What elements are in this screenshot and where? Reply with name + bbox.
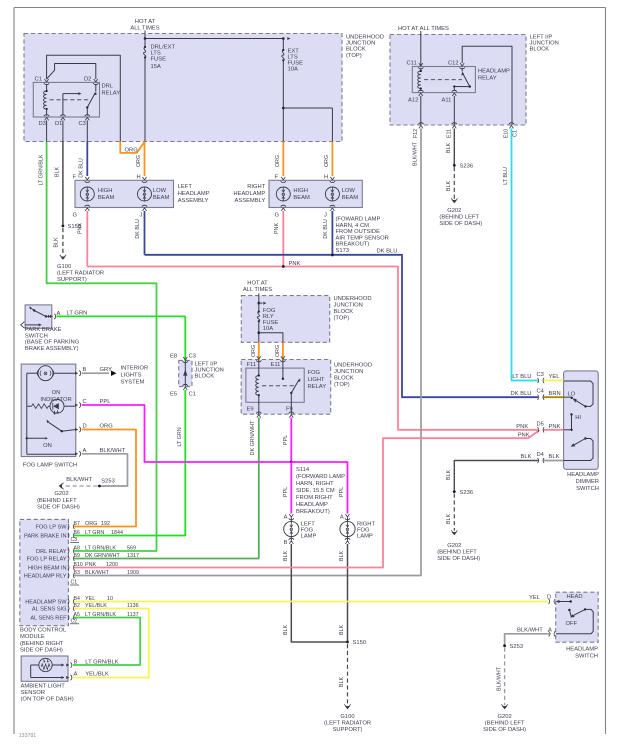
pin C1 [35,77,50,85]
node PNK junction [282,261,301,268]
svg-text:A: A [83,448,87,454]
fuse DRL/EXT label [151,45,176,71]
svg-text:S150: S150 [353,640,367,646]
svg-text:JUNCTION: JUNCTION [334,369,363,375]
wire LT GRN/BLK BCM A5 to sensor [73,618,140,666]
splice S173 [331,248,397,256]
dimmer LO path [564,381,593,408]
svg-text:F: F [73,174,77,180]
svg-text:YEL: YEL [529,595,541,601]
connector label C1 [70,580,79,586]
pin C11 [407,61,424,69]
dimmer HI contact [564,413,582,431]
switch headlamp box [556,592,599,642]
node power bus [144,37,291,40]
svg-text:HEADLAMP: HEADLAMP [178,191,210,197]
left I/P junction block box [390,35,526,126]
svg-text:(LEFT RADIATOR: (LEFT RADIATOR [57,271,104,277]
underhood junction block fog fuse box [241,296,329,343]
pin E10 / C1 [503,123,518,139]
svg-text:BLOCK: BLOCK [346,46,366,52]
svg-text:D4: D4 [537,452,545,458]
svg-text:BLK: BLK [339,551,345,562]
pin E11 fog [271,356,286,368]
right headlamp assembly box [269,180,362,207]
wire feed fog fuse [258,294,260,304]
svg-text:AIR TEMP SENSOR: AIR TEMP SENSOR [336,235,389,241]
pin B2 AL SENS SIG [32,603,139,612]
svg-text:YEL: YEL [549,374,561,380]
splice S150 (left) [62,224,82,230]
svg-text:SWITCH: SWITCH [25,333,48,339]
ground G202 (upper) [439,198,482,227]
svg-text:BLK/WHT: BLK/WHT [85,570,110,576]
relay fog arm [290,378,300,394]
svg-text:PARK BRAKE: PARK BRAKE [25,327,62,333]
svg-text:FROM RIGHT: FROM RIGHT [296,495,333,501]
svg-text:E11: E11 [271,362,281,368]
right headlamp assembly label [233,184,265,204]
pin B9 FOG LP RELAY [27,553,139,562]
svg-text:SIDE OF DASH): SIDE OF DASH) [20,647,63,653]
svg-text:INDICATOR: INDICATOR [40,397,71,403]
svg-text:(TOP): (TOP) [346,53,362,59]
svg-text:C1: C1 [71,580,78,586]
svg-text:BLK/WHT: BLK/WHT [496,666,502,691]
svg-text:BLK: BLK [339,625,345,636]
svg-text:HARN, 4 CM: HARN, 4 CM [336,223,370,229]
svg-text:GRY: GRY [100,367,113,373]
svg-text:DK BLU: DK BLU [377,248,398,254]
wire LT GRN/BLK sensor label [85,659,118,665]
fuse FOG RLY FUSE 10A [257,303,260,342]
svg-text:C4: C4 [537,389,545,395]
pin E9 [247,407,262,418]
svg-text:C3: C3 [71,537,78,543]
svg-text:BEAM: BEAM [293,195,310,201]
svg-text:HARN, RIGHT: HARN, RIGHT [296,481,334,487]
lamp right fog [340,514,376,544]
svg-text:B: B [284,540,288,546]
svg-text:BRAKE ASSEMBLY): BRAKE ASSEMBLY) [25,346,79,352]
svg-text:SUPPORT): SUPPORT) [333,727,363,733]
relay fog coil [256,374,260,396]
pin C12 [448,61,465,69]
svg-text:DK GRN/WHT: DK GRN/WHT [85,553,120,559]
wire dashed to G202 right [496,648,504,706]
svg-text:BLK: BLK [55,167,61,178]
pin A headlamp switch [517,595,555,636]
svg-text:PNK: PNK [274,223,280,234]
switch fog lamp ON branch [26,437,52,449]
ground G202 (lower) [437,530,480,562]
svg-text:UNDERHOOD: UNDERHOOD [334,296,372,302]
svg-text:F9: F9 [286,407,293,413]
ground G100 (fog) [324,704,371,733]
pin A12 [408,90,423,103]
svg-text:RIGHT: RIGHT [247,184,265,190]
dimmer brn entry [511,389,572,400]
lamp left fog [284,514,317,546]
svg-text:DK BLU: DK BLU [79,158,85,178]
wire PNK left high beam [78,211,88,267]
svg-text:S173: S173 [336,248,350,254]
wire BLK E11 [446,129,454,166]
svg-text:(TOP): (TOP) [334,316,350,322]
splice S253 (left) [66,477,115,488]
connector label C3 [70,537,79,543]
wire LT BLU E10 to dimmer [503,129,538,381]
pin A11 [442,90,457,103]
fuse EXT label [288,49,304,73]
svg-text:DK BLU: DK BLU [323,219,329,239]
svg-text:C3: C3 [79,121,86,127]
wire ORG to left low beam [136,142,145,177]
switch fog lamp resistor+LED [27,399,76,414]
svg-text:PNK: PNK [518,433,530,439]
svg-text:LEFT: LEFT [178,184,193,190]
svg-text:(LEFT RADIATOR: (LEFT RADIATOR [324,721,371,727]
svg-text:AL SENS REF: AL SENS REF [30,615,67,621]
left I/P junction block (small) label [195,362,224,380]
pin C fog switch [75,399,87,408]
wire LT GRN to BCM B6 [74,390,185,536]
ground G202 (left) [37,483,80,511]
svg-text:PPL: PPL [283,435,289,445]
svg-text:HIGH BEAM IN: HIGH BEAM IN [28,565,67,571]
relay DRL coil [43,84,47,116]
svg-text:BLK/WHT: BLK/WHT [517,628,543,634]
svg-text:YEL/BLK: YEL/BLK [85,672,109,678]
svg-text:LT BLU: LT BLU [503,167,509,185]
svg-text:ORG: ORG [324,155,330,167]
svg-text:S236: S236 [460,164,474,170]
svg-text:SWITCH: SWITCH [575,653,598,659]
svg-text:MODULE: MODULE [20,634,45,640]
svg-text:S114: S114 [296,467,310,473]
pin E8 C3 [170,354,196,363]
svg-text:HOT AT ALL TIMES: HOT AT ALL TIMES [398,26,449,32]
wire ORG to right high beam [275,142,284,177]
lamp right high beam [275,174,310,218]
svg-text:LAMP: LAMP [301,533,317,539]
relay fog E11 contact [282,360,284,380]
wire YEL/BLK sensor label [85,672,109,678]
svg-text:C1: C1 [513,130,519,137]
svg-text:S236: S236 [460,490,474,496]
svg-text:DIMMER: DIMMER [575,479,599,485]
wire feed into DRL fuse [144,31,146,39]
ground G202 (right) [483,704,526,733]
svg-text:FOG LAMP SWITCH: FOG LAMP SWITCH [23,463,77,469]
pin A sensor [66,672,77,681]
svg-text:(BEHIND LEFT: (BEHIND LEFT [485,721,525,727]
svg-text:LOW: LOW [342,188,356,194]
dimmer yel entry [512,372,563,383]
svg-text:HEADLAMP RLY: HEADLAMP RLY [24,573,67,579]
splice S150 (fog) [346,640,366,646]
ground G100 left radiator support [57,255,104,283]
wire PPL to right fog lamp [291,462,347,514]
svg-text:BRN: BRN [549,391,561,397]
svg-text:HEADLAMP: HEADLAMP [233,191,265,197]
switch fog lamp left rail [27,373,76,454]
interior lights system label [121,366,149,386]
svg-text:J: J [324,213,327,219]
svg-text:SIDE OF DASH): SIDE OF DASH) [483,727,526,733]
pin D1 [55,115,66,127]
wire BLK dashed to G100 [54,228,63,255]
svg-text:BLK/WHT: BLK/WHT [66,477,92,483]
svg-text:BLK: BLK [446,143,452,154]
pin B6 PARK BRAKE IN [24,530,123,539]
lamp right low beam [324,174,358,218]
wire LT GRN park brake [57,310,186,316]
svg-text:ORG: ORG [136,155,142,167]
svg-text:BLK/WHT: BLK/WHT [413,141,419,166]
svg-text:E10: E10 [503,129,509,139]
svg-text:1909: 1909 [127,570,139,576]
svg-text:E9: E9 [247,407,254,413]
dimmer LO arm [571,397,586,407]
svg-text:(ON TOP OF DASH): (ON TOP OF DASH) [21,697,74,703]
svg-text:G: G [73,213,78,219]
junction block pass-through [183,360,187,386]
svg-text:BLK: BLK [446,514,452,525]
switch fog lamp on indicator text [40,390,71,403]
svg-text:A8: A8 [74,546,80,552]
wire A11 down [453,96,455,125]
wire C1 loop to bus [47,55,121,141]
svg-text:LT GRN: LT GRN [67,310,88,316]
svg-text:C2: C2 [71,618,78,624]
relay DRL box [33,82,99,117]
svg-text:RELAY: RELAY [478,76,497,82]
pin B3 HEADLAMP RLY [24,570,139,579]
svg-text:ORG: ORG [100,424,114,430]
note S114 breakout [296,467,345,515]
svg-text:BLOCK: BLOCK [334,309,354,315]
svg-text:LT GRN: LT GRN [85,530,104,536]
svg-text:D5: D5 [537,421,544,427]
svg-text:BLK: BLK [283,551,289,562]
svg-text:B7: B7 [74,521,80,527]
svg-text:AMBIENT LIGHT: AMBIENT LIGHT [21,683,66,689]
relay headlamp arm [453,68,471,91]
relay DRL pin arrow line D1 [63,92,82,115]
switch headlamp arm [566,608,587,627]
wire YEL BCM B4 to headlamp switch [74,601,549,603]
left headlamp assembly box [75,180,174,207]
svg-text:B9: B9 [74,553,80,559]
switch fog lamp box [21,364,76,456]
svg-text:BEAM: BEAM [98,195,115,201]
svg-text:BEAM: BEAM [153,195,170,201]
svg-text:B6: B6 [74,530,80,536]
pin E11 [446,123,457,138]
sensor ambient light symbol [31,658,64,679]
svg-text:BLK: BLK [283,625,289,636]
svg-text:PPL: PPL [283,487,289,497]
svg-text:BLK: BLK [549,454,560,460]
sensor ambient light label [21,683,74,702]
svg-text:HEADLAMP: HEADLAMP [567,472,599,478]
underhood junction block fog relay box [241,360,331,415]
svg-text:BREAKOUT): BREAKOUT) [336,242,370,248]
switch park brake label [25,327,80,352]
switch fog lamp lamp symbol [27,366,76,381]
svg-text:ON: ON [43,443,52,449]
splice S253 (right) [503,644,523,650]
svg-text:BLOCK: BLOCK [195,374,215,380]
switch headlamp dimmer box [564,371,599,469]
svg-text:LIGHTS: LIGHTS [121,373,142,379]
svg-text:C1: C1 [35,77,42,83]
svg-text:(TOP): (TOP) [334,382,350,388]
wire GRY to interior lights [82,367,117,376]
svg-text:B: B [74,659,78,665]
wire PNK BCM B10 to dimmer [74,430,540,567]
svg-text:FUSE: FUSE [151,57,167,63]
svg-text:ASSEMBLY: ASSEMBLY [178,198,209,204]
svg-text:HEADLAMP: HEADLAMP [566,646,598,652]
svg-text:BLK: BLK [54,237,60,248]
wire DK BLU run to dimmer [145,255,539,397]
svg-text:HEADLAMP: HEADLAMP [478,69,510,75]
svg-text:(BEHIND LEFT: (BEHIND LEFT [437,550,477,556]
svg-text:SYSTEM: SYSTEM [121,380,145,386]
wire branch to right low beam [282,107,332,142]
svg-text:BREAKOUT): BREAKOUT) [296,509,330,515]
wire F9 down [290,393,292,414]
relay headlamp label [478,69,510,82]
svg-text:HEADLAMP: HEADLAMP [296,502,328,508]
relay DRL label [102,84,121,97]
fuse EXT LTS FUSE 10A [282,39,285,142]
pin D3 [39,115,50,127]
svg-text:192: 192 [101,521,110,527]
hot at all times label (right) [398,26,449,32]
svg-text:C11: C11 [407,61,417,67]
svg-text:C12: C12 [448,61,459,67]
svg-text:ON: ON [52,390,61,396]
svg-text:G202: G202 [447,208,461,214]
module body control box [20,519,69,625]
svg-text:BEAM: BEAM [342,195,359,201]
dimmer blk entry [521,452,564,463]
svg-text:DK GRN/WHT: DK GRN/WHT [250,420,256,455]
svg-text:SIDE OF DASH): SIDE OF DASH) [37,505,80,511]
wire BLK dashed to G100 fog [339,644,348,704]
svg-text:HIGH: HIGH [293,188,308,194]
svg-text:LT GRN: LT GRN [177,427,183,446]
svg-text:HOT AT: HOT AT [135,19,156,25]
relay headlamp dashed link [424,79,462,81]
splice S236 (upper) [453,164,473,170]
wire DK GRN/WHT E9 to BCM B9 [74,418,259,559]
underhood junction block fog label [334,296,372,322]
switch headlamp label [566,646,598,659]
lamp left high beam [73,174,115,218]
svg-text:FOG LP RELAY: FOG LP RELAY [27,556,67,562]
wire DK BLU left low beam [135,211,145,255]
wire PPL to left fog lamp [283,462,292,514]
pin B10 HIGH BEAM IN [28,562,118,571]
wire C3 down [86,120,88,141]
pin F9 [286,407,294,418]
svg-text:S253: S253 [101,478,115,484]
relay headlamp coil [418,68,422,91]
svg-text:FOG LP SW: FOG LP SW [36,524,68,530]
svg-text:PNK: PNK [78,223,84,234]
wire BLK left fog [283,544,348,642]
wire PNK junction run [87,267,538,430]
wire BLK right fog [339,544,348,642]
left I/P junction block label [530,34,559,52]
relay headlamp box [412,67,475,93]
svg-text:DK BLU: DK BLU [511,391,532,397]
svg-text:10A: 10A [263,326,273,332]
svg-text:HI: HI [575,415,581,421]
svg-text:BLOCK: BLOCK [530,46,550,52]
svg-text:SIDE OF DASH): SIDE OF DASH) [437,556,480,562]
pin D2 [84,77,98,85]
svg-text:JUNCTION: JUNCTION [334,303,363,309]
svg-text:(BEHIND LEFT: (BEHIND LEFT [37,498,77,504]
svg-text:OFF: OFF [566,621,578,627]
pin E5 C1 [170,384,196,397]
svg-text:C3: C3 [189,354,196,360]
splice S236 (lower) [453,490,473,496]
wire LT GRN down to junction block [184,316,186,360]
svg-text:LT GRN/BLK: LT GRN/BLK [85,659,118,665]
switch park brake contacts [21,306,51,328]
wire PNK right high beam [274,211,284,267]
svg-text:F11: F11 [247,362,257,368]
wire ORG fuse to relay F11 [251,342,259,359]
svg-text:D3: D3 [39,121,46,127]
pin B4 HEADLAMP SW [25,596,113,605]
wire BLK/WHT F12 to BCM B3 [74,129,421,576]
svg-text:PNK: PNK [289,261,301,267]
svg-text:LIGHT: LIGHT [308,377,326,383]
svg-text:(FOWARD LAMP: (FOWARD LAMP [336,217,381,223]
svg-text:RELAY: RELAY [102,91,121,97]
wire DK BLU right low beam [323,211,333,255]
svg-text:E8: E8 [170,354,177,360]
svg-text:B: B [83,367,87,373]
pin B fog switch [75,367,87,376]
switch fog lamp arm [47,420,76,433]
wire dashed to G202 left [64,485,98,487]
svg-text:C3: C3 [537,372,544,378]
hot at all times label (fog) [243,281,272,294]
svg-text:D2: D2 [84,77,91,83]
svg-text:H: H [324,174,328,180]
left headlamp assembly label [178,184,210,204]
pin A5 AL SENS REF [30,612,138,621]
wire YEL/BLK BCM B2 to sensor [73,609,149,678]
svg-text:LT BLU: LT BLU [512,374,531,380]
svg-text:569: 569 [127,546,136,552]
svg-text:PNK: PNK [516,424,528,430]
svg-text:G202: G202 [447,543,461,549]
svg-text:SUPPORT): SUPPORT) [57,277,87,283]
svg-text:PPL: PPL [339,487,345,497]
svg-text:E5: E5 [170,392,177,398]
svg-text:G100: G100 [57,264,71,270]
svg-text:ORG: ORG [275,155,281,167]
